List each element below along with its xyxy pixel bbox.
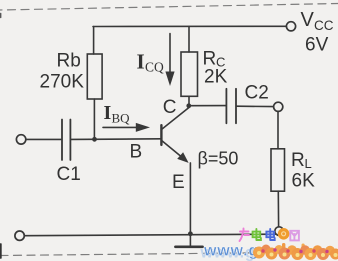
svg-text:www.g: www.g	[203, 242, 259, 259]
wire: Rc bottom to collector node	[188, 96, 190, 106]
watermark flowers	[253, 243, 338, 260]
svg-text:C1: C1	[57, 164, 81, 185]
ground stem	[189, 234, 191, 246]
svg-text:V: V	[301, 9, 315, 31]
terminal Vcc	[286, 22, 295, 31]
glyph 2 green	[253, 229, 261, 240]
terminal output	[274, 102, 283, 111]
svg-text:6K: 6K	[292, 171, 316, 192]
svg-text:C2: C2	[245, 83, 269, 104]
resistor RL	[271, 149, 285, 191]
bottom boundary dashed line	[0, 252, 338, 256]
wire: Vcc top rail	[93, 25, 286, 27]
svg-text:L: L	[305, 156, 312, 171]
watermark line 1: site name glyphs	[240, 228, 299, 241]
svg-text:R: R	[291, 150, 305, 171]
svg-text:CC: CC	[314, 18, 334, 33]
terminal input	[16, 135, 25, 144]
wire: C2 to output terminal	[237, 105, 274, 107]
wire: top rail to Rb	[93, 27, 95, 55]
svg-text:I: I	[104, 102, 112, 124]
node: collector junction	[186, 103, 191, 108]
resistor Rb	[87, 54, 102, 99]
glyph 1 pink	[240, 229, 250, 242]
wire: emitter vertical	[189, 163, 191, 234]
svg-text:270K: 270K	[40, 72, 85, 93]
transistor Q1 collector lead	[162, 108, 189, 130]
capacitor C2	[225, 89, 227, 124]
glyph 5 lavender	[290, 231, 299, 241]
wire: collector node to C2	[189, 105, 226, 107]
svg-text:β=50: β=50	[198, 149, 239, 169]
wire: top rail to Rc	[188, 27, 190, 53]
wire: RL bottom to rail circle	[277, 191, 279, 227]
wire: bottom rail	[24, 234, 275, 236]
wire: output to RL	[277, 111, 279, 148]
wire: input to C1	[26, 138, 61, 140]
svg-text:CQ: CQ	[145, 60, 164, 75]
svg-text:B: B	[130, 142, 143, 163]
capacitor C1	[61, 120, 63, 161]
resistor Rc	[181, 52, 198, 96]
svg-text:C: C	[163, 97, 177, 118]
transistor Q1 base bar	[160, 125, 162, 145]
node: base junction	[92, 137, 97, 142]
svg-text:Rb: Rb	[57, 51, 81, 72]
svg-text:E: E	[172, 172, 185, 193]
terminal RL bottom	[275, 227, 284, 236]
glyph 4 orange disc	[278, 228, 290, 240]
transistor Q1 emitter lead	[162, 141, 182, 158]
glyph 3 blue	[266, 229, 274, 240]
svg-text:6V: 6V	[305, 35, 329, 56]
svg-text:2K: 2K	[204, 67, 228, 88]
ground bar	[175, 246, 202, 249]
current arrow Ibq	[103, 126, 137, 128]
flower accents	[261, 249, 264, 252]
terminal bottom-left	[15, 231, 24, 240]
node: emitter rail junction	[188, 231, 193, 236]
left-edge top scan mark	[0, 14, 2, 18]
top boundary dashed line	[0, 4, 338, 11]
left-edge scan mark	[0, 244, 2, 258]
wire: Rb bottom to base node	[93, 99, 95, 139]
svg-text:BQ: BQ	[112, 111, 131, 126]
wire: C1 to base	[71, 138, 161, 141]
transistor Q1 emitter arrowhead	[177, 152, 188, 163]
current arrow Icq	[169, 34, 171, 73]
svg-text:I: I	[137, 50, 145, 74]
